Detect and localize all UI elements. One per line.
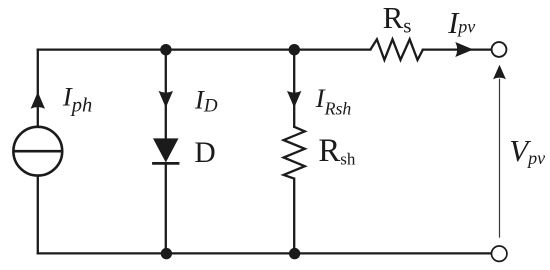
junction node top Rsh xyxy=(289,44,300,55)
current arrow IRsh xyxy=(287,91,301,108)
wire diode branch lower xyxy=(165,163,167,253)
current source U1 (photocurrent source) xyxy=(13,127,62,176)
svg-text:Iph: Iph xyxy=(62,82,92,117)
junction node bottom diode xyxy=(161,248,172,259)
svg-text:ID: ID xyxy=(194,85,218,117)
junction node bottom Rsh xyxy=(289,248,300,259)
wire left branch upper xyxy=(37,50,39,127)
wire Rsh branch upper xyxy=(293,50,295,127)
voltage measure line Vpv xyxy=(499,79,501,238)
diode D xyxy=(152,138,179,163)
wire left branch lower xyxy=(37,176,39,254)
wire bottom rail to output terminal xyxy=(295,252,492,254)
resistor Rsh xyxy=(284,127,305,179)
resistor Rs xyxy=(370,39,423,60)
current arrow Ipv xyxy=(455,42,473,57)
wire Rsh branch lower xyxy=(293,179,295,254)
svg-text:Vpv: Vpv xyxy=(509,133,545,168)
svg-text:Rsh: Rsh xyxy=(318,133,356,169)
wire bottom rail middle segment xyxy=(166,252,294,254)
svg-text:Ipv: Ipv xyxy=(447,6,475,40)
current arrow ID xyxy=(159,91,173,108)
junction node top diode xyxy=(160,44,171,55)
wire top rail to Rs xyxy=(294,48,370,50)
svg-text:D: D xyxy=(194,137,215,169)
svg-text:IRsh: IRsh xyxy=(315,83,352,119)
current arrow Iph xyxy=(31,92,45,109)
wire diode branch upper xyxy=(165,50,167,140)
svg-text:Rs: Rs xyxy=(383,0,412,38)
terminal positive (top right) xyxy=(492,42,507,57)
wire top rail left segment xyxy=(38,48,166,50)
wire Rs to output terminal xyxy=(423,48,492,50)
voltage arrow Vpv xyxy=(493,65,506,79)
wire top rail middle segment xyxy=(166,48,294,50)
wire bottom rail left segment xyxy=(38,252,167,254)
terminal negative (bottom right) xyxy=(492,246,507,261)
